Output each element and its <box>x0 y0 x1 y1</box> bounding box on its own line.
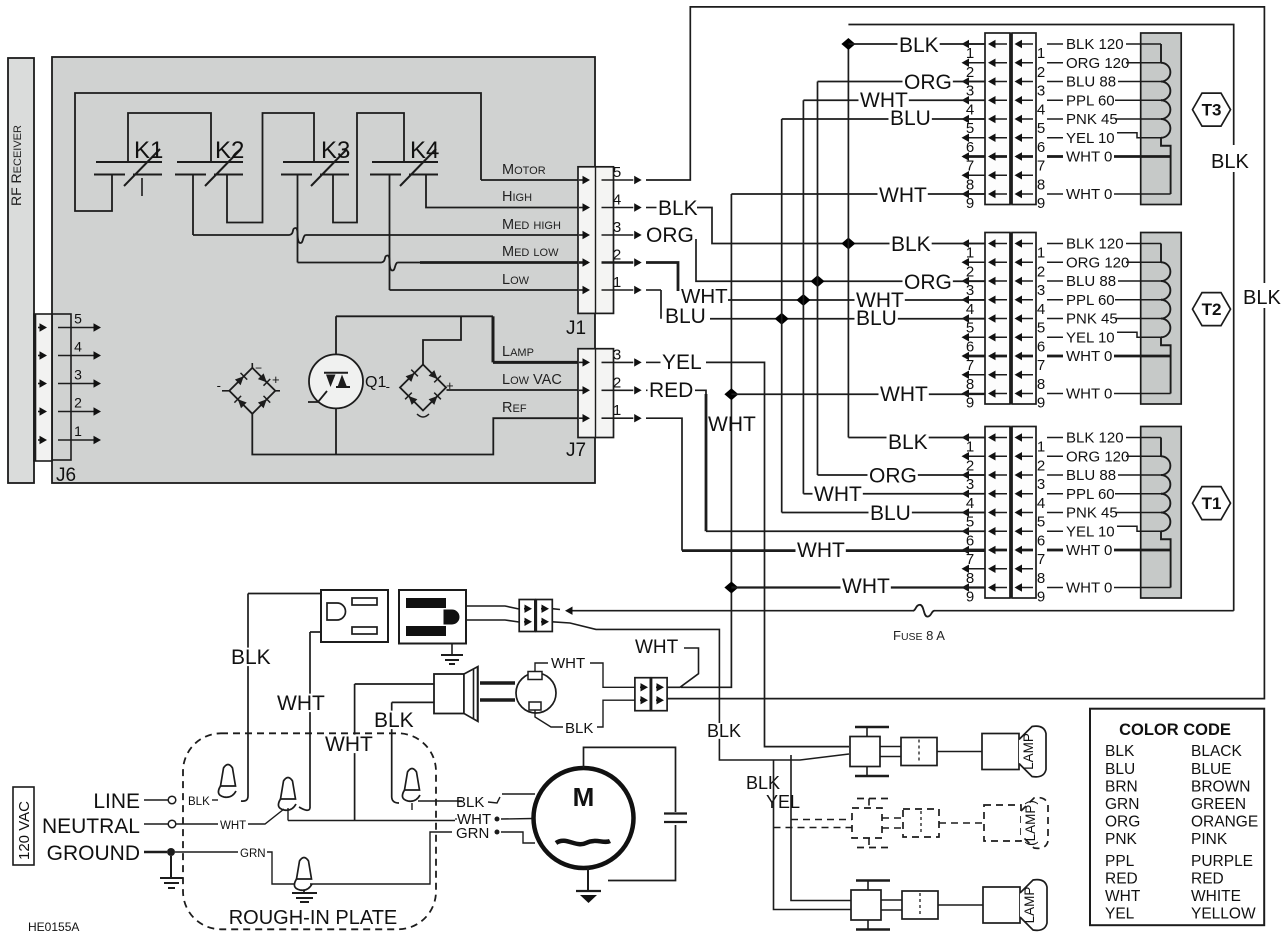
svg-text:PPL 60: PPL 60 <box>1066 92 1115 109</box>
svg-text:BLK: BLK <box>1211 151 1249 173</box>
svg-text:HIGH: HIGH <box>502 189 532 205</box>
svg-text:4: 4 <box>1037 301 1045 318</box>
svg-text:3: 3 <box>966 476 974 493</box>
svg-text:BLU 88: BLU 88 <box>1066 74 1116 91</box>
svg-text:BLU: BLU <box>870 502 911 525</box>
svg-text:1: 1 <box>1037 439 1045 456</box>
svg-text:2: 2 <box>966 457 974 474</box>
svg-text:1: 1 <box>966 45 974 62</box>
svg-text:7: 7 <box>1037 357 1045 374</box>
svg-text:WHT 0: WHT 0 <box>1066 149 1112 166</box>
svg-text:9: 9 <box>966 589 974 606</box>
svg-text:5: 5 <box>1037 120 1045 137</box>
svg-text:WHT 0: WHT 0 <box>1066 386 1112 403</box>
svg-text:K2: K2 <box>215 137 244 164</box>
svg-text:T2: T2 <box>1202 300 1222 319</box>
svg-text:+: + <box>272 372 280 387</box>
svg-text:LINE: LINE <box>93 790 140 813</box>
svg-text:LOW VAC: LOW VAC <box>502 372 562 388</box>
svg-text:4: 4 <box>74 339 82 355</box>
svg-text:YEL: YEL <box>662 351 702 374</box>
svg-text:120 VAC: 120 VAC <box>16 801 33 860</box>
svg-text:3: 3 <box>1037 476 1045 493</box>
svg-text:BLK: BLK <box>565 720 593 737</box>
svg-text:J1: J1 <box>566 318 586 339</box>
svg-text:9: 9 <box>1037 395 1045 412</box>
svg-text:WHT: WHT <box>797 539 845 562</box>
svg-text:1: 1 <box>613 402 621 419</box>
svg-text:GROUND: GROUND <box>47 842 140 865</box>
svg-text:ORG: ORG <box>904 71 952 94</box>
svg-text:T3: T3 <box>1202 101 1222 120</box>
svg-text:5: 5 <box>613 164 621 181</box>
svg-text:4: 4 <box>966 101 974 118</box>
svg-text:8: 8 <box>966 570 974 587</box>
svg-text:LAMP: LAMP <box>1022 887 1037 924</box>
svg-text:6: 6 <box>1037 139 1045 156</box>
svg-text:WHT: WHT <box>708 413 756 436</box>
svg-text:1: 1 <box>1037 45 1045 62</box>
svg-text:3: 3 <box>1037 282 1045 299</box>
svg-text:6: 6 <box>1037 338 1045 355</box>
svg-text:BLU: BLU <box>890 107 931 130</box>
svg-text:ORG: ORG <box>904 271 952 294</box>
svg-text:4: 4 <box>1037 495 1045 512</box>
svg-text:REF: REF <box>502 400 527 416</box>
svg-text:MED HIGH: MED HIGH <box>502 217 561 233</box>
svg-text:4: 4 <box>613 192 621 209</box>
svg-text:5: 5 <box>966 514 974 531</box>
svg-text:ORANGE: ORANGE <box>1191 814 1258 831</box>
svg-text:GRN: GRN <box>1105 796 1139 813</box>
svg-text:2: 2 <box>613 374 621 391</box>
svg-text:BRN: BRN <box>1105 779 1138 796</box>
svg-text:BLK: BLK <box>231 646 271 669</box>
svg-text:BLACK: BLACK <box>1191 743 1242 760</box>
svg-text:NEUTRAL: NEUTRAL <box>42 815 140 838</box>
svg-text:RED: RED <box>649 379 693 402</box>
svg-text:2: 2 <box>1037 457 1045 474</box>
svg-text:8: 8 <box>966 376 974 393</box>
svg-text:WHITE: WHITE <box>1191 888 1241 905</box>
svg-text:WHT: WHT <box>635 637 679 658</box>
svg-text:WHT: WHT <box>551 655 585 672</box>
svg-text:WHT: WHT <box>1105 888 1141 905</box>
svg-text:ORG: ORG <box>869 465 917 488</box>
svg-text:MOTOR: MOTOR <box>502 162 546 178</box>
svg-text:WHT: WHT <box>814 483 862 506</box>
svg-text:6: 6 <box>966 139 974 156</box>
svg-text:2: 2 <box>613 247 621 264</box>
svg-text:8: 8 <box>1037 176 1045 193</box>
svg-text:PNK 45: PNK 45 <box>1066 311 1118 328</box>
svg-text:(LAMP): (LAMP) <box>1023 800 1038 846</box>
svg-text:J6: J6 <box>56 465 76 486</box>
svg-text:−: − <box>255 361 262 375</box>
svg-text:3: 3 <box>966 282 974 299</box>
svg-text:1: 1 <box>613 274 621 291</box>
svg-text:PPL: PPL <box>1105 853 1135 870</box>
svg-text:ORG 120: ORG 120 <box>1066 254 1129 271</box>
svg-text:-: - <box>217 378 221 393</box>
svg-text:5: 5 <box>966 120 974 137</box>
svg-text:2: 2 <box>966 64 974 81</box>
svg-text:WHT: WHT <box>879 184 927 207</box>
svg-text:Q1: Q1 <box>365 374 386 391</box>
svg-text:BLK 120: BLK 120 <box>1066 36 1124 53</box>
svg-text:T1: T1 <box>1202 494 1222 513</box>
svg-text:K1: K1 <box>134 137 163 164</box>
svg-text:2: 2 <box>1037 64 1045 81</box>
svg-text:PINK: PINK <box>1191 831 1228 848</box>
svg-text:BLK: BLK <box>1105 743 1135 760</box>
svg-text:BLK: BLK <box>899 34 939 57</box>
svg-text:6: 6 <box>966 338 974 355</box>
svg-text:BLU: BLU <box>1105 761 1135 778</box>
svg-text:4: 4 <box>966 301 974 318</box>
svg-text:GRN: GRN <box>456 825 489 842</box>
svg-text:3: 3 <box>613 219 621 236</box>
svg-text:BROWN: BROWN <box>1191 779 1250 796</box>
svg-text:ORG: ORG <box>646 224 694 247</box>
svg-text:GRN: GRN <box>240 848 266 860</box>
svg-text:8: 8 <box>1037 376 1045 393</box>
svg-text:YEL: YEL <box>1105 906 1135 923</box>
svg-text:J7: J7 <box>566 440 586 461</box>
svg-text:FUSE 8 A: FUSE 8 A <box>893 628 945 643</box>
svg-text:ORG 120: ORG 120 <box>1066 448 1129 465</box>
svg-text:3: 3 <box>1037 83 1045 100</box>
svg-text:WHT 0: WHT 0 <box>1066 542 1112 559</box>
svg-text:BLU: BLU <box>856 307 897 330</box>
svg-text:ORG 120: ORG 120 <box>1066 55 1129 72</box>
svg-text:8: 8 <box>966 176 974 193</box>
svg-text:BLU: BLU <box>665 305 706 328</box>
svg-text:ORG: ORG <box>1105 814 1140 831</box>
svg-text:WHT: WHT <box>880 383 928 406</box>
svg-text:PNK 45: PNK 45 <box>1066 111 1118 128</box>
svg-text:YEL 10: YEL 10 <box>1066 130 1115 147</box>
svg-text:ROUGH-IN PLATE: ROUGH-IN PLATE <box>229 907 398 929</box>
svg-text:BLK 120: BLK 120 <box>1066 236 1124 253</box>
svg-text:6: 6 <box>966 532 974 549</box>
svg-text:COLOR CODE: COLOR CODE <box>1119 721 1231 739</box>
svg-text:RED: RED <box>1105 871 1138 888</box>
svg-text:6: 6 <box>1037 532 1045 549</box>
svg-text:7: 7 <box>966 551 974 568</box>
svg-text:WHT 0: WHT 0 <box>1066 186 1112 203</box>
svg-text:9: 9 <box>966 395 974 412</box>
svg-text:YEL: YEL <box>766 792 800 812</box>
svg-text:1: 1 <box>1037 245 1045 262</box>
svg-text:8: 8 <box>1037 570 1045 587</box>
svg-text:7: 7 <box>966 357 974 374</box>
svg-text:PNK: PNK <box>1105 831 1138 848</box>
svg-text:BLK: BLK <box>1243 287 1281 309</box>
svg-text:BLK: BLK <box>374 709 414 732</box>
svg-text:5: 5 <box>74 311 82 327</box>
svg-text:BLK: BLK <box>888 431 928 454</box>
svg-text:4: 4 <box>966 495 974 512</box>
svg-text:2: 2 <box>966 263 974 280</box>
svg-text:BLK: BLK <box>658 197 698 220</box>
svg-text:BLK: BLK <box>456 794 484 811</box>
svg-text:BLK: BLK <box>891 233 931 256</box>
svg-text:1: 1 <box>966 245 974 262</box>
svg-text:3: 3 <box>74 367 82 383</box>
svg-text:2: 2 <box>1037 263 1045 280</box>
svg-text:5: 5 <box>1037 320 1045 337</box>
svg-text:YEL 10: YEL 10 <box>1066 329 1115 346</box>
svg-text:BLUE: BLUE <box>1191 761 1232 778</box>
svg-text:9: 9 <box>1037 195 1045 212</box>
svg-text:5: 5 <box>966 320 974 337</box>
svg-text:K3: K3 <box>321 137 350 164</box>
svg-text:9: 9 <box>1037 589 1045 606</box>
svg-text:RED: RED <box>1191 871 1224 888</box>
svg-text:HE0155A: HE0155A <box>28 920 79 932</box>
svg-text:5: 5 <box>1037 514 1045 531</box>
svg-text:3: 3 <box>966 83 974 100</box>
svg-text:WHT: WHT <box>842 575 890 598</box>
svg-text:PNK 45: PNK 45 <box>1066 505 1118 522</box>
svg-text:+: + <box>446 378 454 393</box>
svg-text:LAMP: LAMP <box>502 344 534 360</box>
svg-text:BLK: BLK <box>746 773 780 793</box>
svg-text:M: M <box>573 782 595 812</box>
svg-text:1: 1 <box>966 439 974 456</box>
svg-text:GREEN: GREEN <box>1191 796 1246 813</box>
svg-text:BLU 88: BLU 88 <box>1066 273 1116 290</box>
svg-text:9: 9 <box>966 195 974 212</box>
svg-text:7: 7 <box>1037 551 1045 568</box>
svg-text:PPL 60: PPL 60 <box>1066 292 1115 309</box>
svg-text:WHT: WHT <box>277 692 325 715</box>
svg-text:BLU 88: BLU 88 <box>1066 467 1116 484</box>
svg-text:LAMP: LAMP <box>1021 733 1036 770</box>
svg-text:BLK: BLK <box>707 721 741 741</box>
svg-text:K4: K4 <box>410 137 439 164</box>
svg-text:PURPLE: PURPLE <box>1191 853 1253 870</box>
svg-text:LOW: LOW <box>502 272 530 288</box>
svg-text:2: 2 <box>74 395 82 411</box>
svg-text:PPL 60: PPL 60 <box>1066 486 1115 503</box>
svg-text:3: 3 <box>613 346 621 363</box>
svg-text:YELLOW: YELLOW <box>1191 906 1256 923</box>
svg-text:7: 7 <box>1037 158 1045 175</box>
svg-text:YEL 10: YEL 10 <box>1066 523 1115 540</box>
svg-text:BLK 120: BLK 120 <box>1066 430 1124 447</box>
svg-text:WHT: WHT <box>220 820 246 832</box>
svg-text:1: 1 <box>74 423 82 439</box>
svg-text:WHT 0: WHT 0 <box>1066 580 1112 597</box>
svg-text:MED LOW: MED LOW <box>502 244 559 260</box>
svg-text:BLK: BLK <box>188 796 210 808</box>
svg-text:4: 4 <box>1037 101 1045 118</box>
svg-text:7: 7 <box>966 158 974 175</box>
svg-text:WHT 0: WHT 0 <box>1066 348 1112 365</box>
svg-text:WHT: WHT <box>325 733 373 756</box>
